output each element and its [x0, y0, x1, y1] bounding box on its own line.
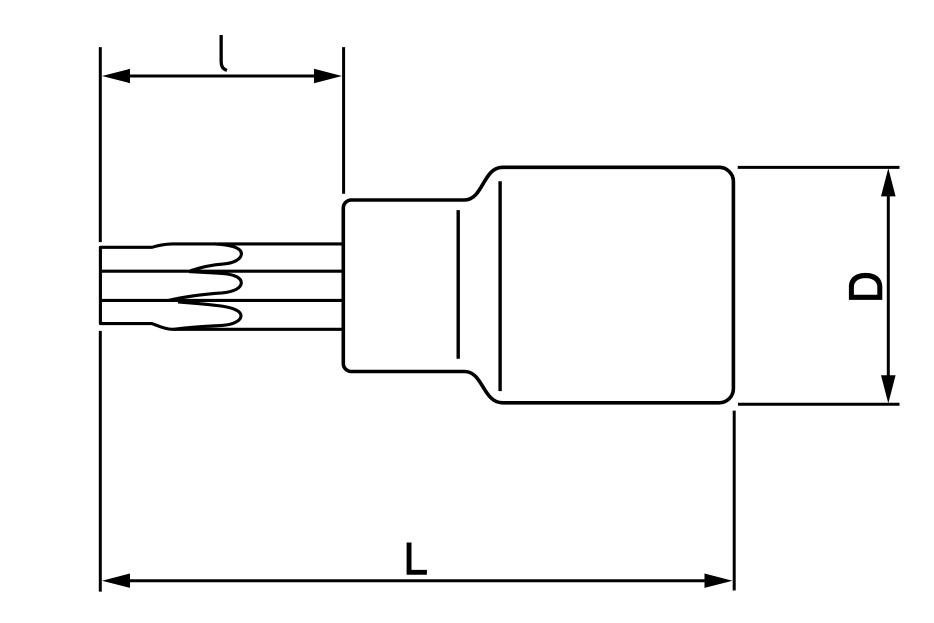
arrowhead L left	[102, 574, 130, 588]
socket interior line B	[498, 181, 501, 391]
dimension line L (bottom)	[126, 579, 710, 582]
socket body outline (neck + head)	[343, 167, 733, 402]
label L	[407, 543, 427, 575]
extension line right of l dimension	[342, 47, 345, 194]
torx flute lobe 3 (bottom finger)	[174, 302, 241, 329]
arrowhead L right	[705, 574, 733, 588]
dimension line D (right)	[887, 194, 890, 377]
torx flute lobe 2 (middle finger)	[169, 272, 242, 301]
label l (lowercase l with tail)	[220, 35, 228, 72]
extension line left (bottom part, for L)	[99, 331, 102, 592]
torx bit outline (left face, top silhouette with tip chamfer, bottom silhouette)	[100, 244, 343, 329]
arrowhead D top	[881, 168, 896, 196]
arrowhead l right	[314, 69, 342, 83]
torx groove line 2	[100, 299, 343, 302]
torx groove line 1	[100, 270, 343, 273]
label D (rotated 90 deg CCW)	[849, 273, 882, 300]
extension line right of L dimension	[733, 411, 736, 591]
extension line bottom of D dimension	[738, 403, 900, 406]
arrowhead D bottom	[881, 375, 896, 403]
arrowhead l left	[102, 69, 130, 83]
dimension line l (top)	[126, 75, 318, 78]
socket interior line A	[457, 210, 460, 359]
torx flute lobe 1 (top finger)	[191, 244, 242, 271]
extension line top of D dimension	[738, 166, 900, 169]
extension line left (top part, for l and L)	[99, 47, 102, 242]
